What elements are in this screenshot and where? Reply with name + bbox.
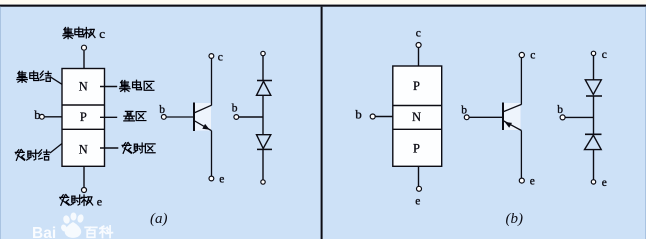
svg-text:P: P (413, 142, 420, 156)
node: collector terminal circle (a) (82, 45, 87, 50)
svg-text:Bai: Bai (32, 225, 56, 239)
wire: Q2 emitter slant (504, 121, 522, 131)
Q2 base bar (502, 103, 504, 131)
right border (faint) (645, 7, 646, 239)
wire: Q1 collector lead (211, 58, 213, 105)
node: collector terminal (b box) with c label (416, 28, 421, 67)
node: collector terminal circle (b diode pair) (591, 51, 595, 55)
PNP structure box (393, 66, 442, 166)
Q2 emitter arrow (inward, PNP) (505, 122, 513, 128)
node: Q1 base terminal (161, 115, 166, 120)
diode D1 (a) base-collector, cathode bar up (257, 80, 272, 82)
svg-text:b: b (557, 104, 563, 116)
wire: D1 anode to D2 anode with base junction (262, 96, 264, 135)
svg-text:N: N (79, 79, 88, 93)
wire: emitter lead out of box (a) (83, 166, 85, 187)
tick: emitter region pointer (100, 147, 118, 149)
svg-text:(b): (b) (506, 211, 524, 227)
wire: base branch to diode column (a) (239, 116, 263, 118)
tick: base region pointer (100, 116, 117, 118)
svg-text:e: e (415, 195, 420, 207)
label: emitter junction (fa-she-jie) (15, 144, 62, 161)
svg-text:e: e (219, 174, 224, 186)
wire: Q1 base lead (166, 116, 193, 118)
label: emitter region (fa-she-qu) (122, 143, 155, 154)
wire: Q1 emitter lead (211, 131, 213, 176)
svg-text:e: e (602, 177, 607, 189)
diode D2 (b) base-emitter, cathode bar up (585, 133, 602, 135)
svg-text:P: P (80, 110, 87, 124)
svg-text:e: e (530, 175, 535, 187)
wire: Q2 emitter lead (520, 131, 522, 179)
svg-text:N: N (412, 110, 421, 124)
wire: Q2 collector slant (504, 104, 522, 111)
label: emitter electrode (fa-she-ji) e (60, 195, 102, 209)
top white strip (0, 0, 646, 5)
wire: Q1 emitter slant (195, 121, 212, 131)
watermark: Baidu Baike logo (32, 213, 112, 240)
wire: D1 cathode to D2 cathode with base junction (b) (593, 96, 595, 134)
svg-text:b: b (461, 105, 467, 117)
node: base terminal b (a) (34, 108, 62, 122)
top border line (0, 5, 646, 7)
center divider between panels (321, 7, 323, 239)
svg-text:b: b (232, 102, 238, 114)
tick: collector region pointer (100, 86, 117, 88)
node: Q2 collector terminal (519, 52, 524, 57)
wire: top terminal to D1 cathode (262, 56, 264, 81)
diode pair equivalent (a) (232, 51, 272, 184)
Q1 emitter arrow (outward, NPN) (202, 124, 210, 130)
svg-text:P: P (413, 79, 420, 93)
node: Q1 emitter terminal (209, 176, 214, 181)
svg-text:b: b (159, 104, 165, 116)
node: base terminal b (b box) (355, 106, 393, 121)
node: top terminal circle (a diode pair) (261, 51, 265, 55)
wire: D2 anode to emitter terminal (b) (593, 150, 595, 180)
svg-text:c: c (530, 50, 535, 62)
label: collector junction (ji-dian-jie) (17, 71, 62, 84)
svg-text:c: c (602, 49, 607, 61)
node: Q2 emitter terminal (519, 178, 524, 183)
transistor Q2 (PNP) symbol (461, 50, 535, 188)
transistor Q1 (NPN) symbol (159, 52, 224, 186)
label: base region (ji-qu) (124, 111, 146, 120)
NPN structure box (62, 69, 105, 167)
node: Q1 collector terminal (209, 54, 214, 59)
label: collector electrode (ji-dian-ji) c (63, 26, 105, 41)
wire: Q2 base lead (469, 116, 502, 118)
wire: D2 cathode to bottom terminal (262, 149, 264, 179)
node: emitter terminal circle (b diode pair) (591, 180, 595, 184)
left border (faint) (0, 7, 1, 239)
svg-text:c: c (99, 26, 105, 41)
wire: base branch to diode column (b) (565, 116, 593, 118)
node: emitter terminal circle (a) (82, 188, 87, 193)
node: emitter terminal (b box) with e label (415, 166, 421, 207)
wire: Q2 collector lead (520, 58, 522, 105)
svg-text:b: b (355, 106, 362, 121)
svg-text:c: c (218, 52, 223, 64)
wire: Q1 collector slant (195, 105, 212, 112)
svg-text:(a): (a) (150, 211, 168, 227)
diode D1 (b) collector-base, cathode bar down (585, 80, 601, 95)
node: bottom terminal circle (a diode pair) (261, 180, 265, 184)
wire: collector terminal to D1 anode (b) (593, 56, 595, 80)
node: Q2 base terminal (464, 115, 469, 120)
wire: collector lead into box (a) (83, 51, 85, 69)
svg-text:N: N (79, 143, 88, 157)
diode pair equivalent (b) (557, 49, 607, 189)
label: collector region (ji-dian-qu) (120, 80, 154, 91)
svg-text:e: e (97, 195, 102, 209)
diode D2 (a) base-emitter, cathode bar down (257, 135, 271, 149)
Q1 base bar (193, 103, 195, 132)
svg-text:c: c (416, 28, 421, 40)
